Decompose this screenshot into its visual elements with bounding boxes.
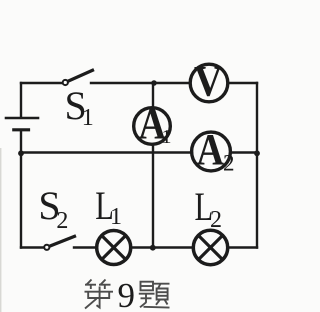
wire left vertical lower	[20, 153, 22, 248]
svg-text:9: 9	[118, 276, 136, 312]
wire right vertical	[256, 83, 258, 248]
svg-text:1: 1	[162, 126, 172, 148]
wire top-left horizontal	[21, 82, 62, 84]
svg-text:V: V	[194, 59, 223, 106]
wire S1 to V	[91, 82, 190, 84]
wire branch A1 top	[152, 83, 154, 108]
ammeter A1	[134, 99, 172, 148]
svg-text:1: 1	[110, 204, 122, 230]
ammeter A2	[192, 125, 235, 176]
label S1	[65, 83, 94, 131]
wire S2 to L1	[74, 246, 96, 248]
svg-text:2: 2	[223, 151, 235, 176]
node middle right junction	[254, 150, 260, 156]
svg-text:2: 2	[56, 208, 68, 234]
switch S1	[63, 70, 93, 85]
node bottom junction	[150, 245, 156, 251]
node battery junction	[18, 150, 24, 156]
switch S2	[44, 236, 74, 250]
scan edge artifact	[0, 148, 2, 312]
caption: 第 9 题	[85, 276, 170, 312]
wire bottom-left	[21, 246, 44, 248]
svg-text:1: 1	[82, 105, 94, 131]
char di (第)	[85, 280, 114, 309]
battery B	[6, 83, 38, 151]
lamp L2	[193, 230, 227, 264]
label L1	[95, 183, 122, 230]
wire middle left	[21, 151, 192, 153]
label S2	[38, 183, 68, 234]
char ti (题)	[139, 282, 170, 308]
wire middle right	[231, 151, 258, 153]
label L2	[195, 184, 223, 233]
voltmeter V	[190, 59, 228, 106]
node top junction	[151, 80, 157, 86]
wire branch A1 bottom	[152, 145, 154, 248]
wire V to right corner	[228, 82, 257, 84]
lamp L1	[97, 231, 131, 265]
wire L1 to L2	[133, 246, 193, 248]
wire L2 to right corner	[229, 246, 257, 248]
svg-text:A: A	[197, 125, 225, 174]
